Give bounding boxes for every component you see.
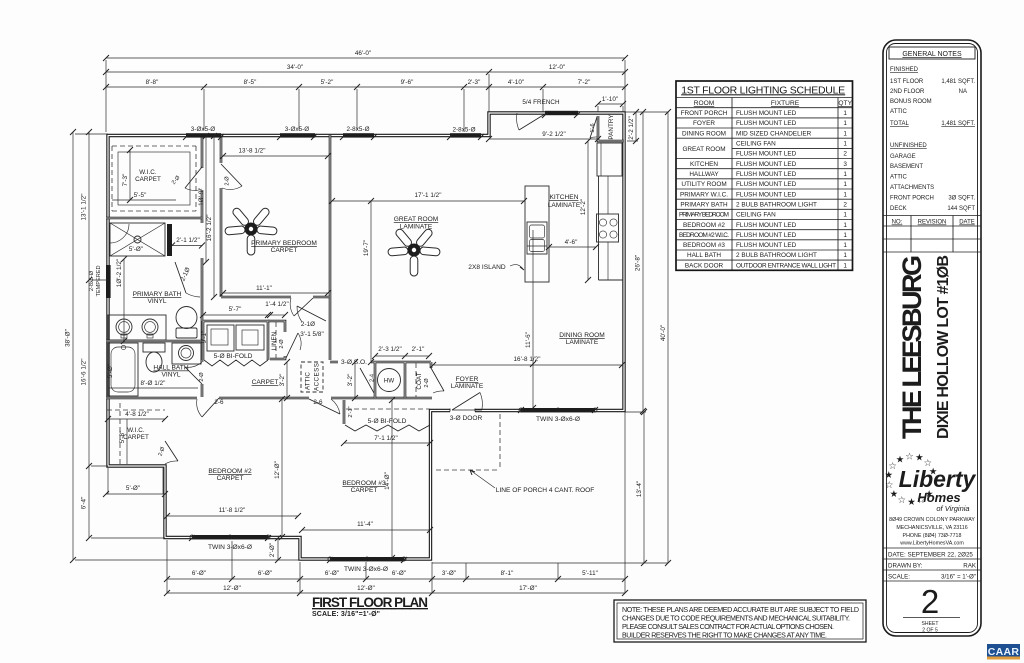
dimension 12'-2" kitchen vertical: [580, 138, 591, 283]
svg-text:17'-1 1/2": 17'-1 1/2": [414, 192, 441, 199]
sheet number 2: [903, 583, 960, 634]
svg-text:144 SQFT: 144 SQFT: [947, 206, 975, 212]
svg-text:FLUSH MOUNT LED: FLUSH MOUNT LED: [736, 242, 797, 249]
svg-text:8'-8": 8'-8": [146, 79, 159, 86]
svg-text:BEDROOM #2: BEDROOM #2: [208, 468, 252, 475]
dimension 11'-4" bedroom3: [299, 521, 433, 533]
dimension 7'-1 1/2" bedroom3 closet: [341, 435, 433, 446]
svg-text:GENERAL NOTES: GENERAL NOTES: [902, 51, 962, 58]
svg-text:HALLWAY: HALLWAY: [689, 171, 719, 178]
svg-text:2ND FLOOR: 2ND FLOOR: [890, 89, 925, 95]
window end tick marks top wall: [183, 112, 580, 140]
svg-text:5'-2": 5'-2": [321, 79, 334, 86]
ceiling fan great room: [388, 228, 440, 276]
label linen: [271, 331, 285, 350]
WIC1 shelf solid: [118, 152, 190, 205]
svg-text:2 BULB BATHROOM LIGHT: 2 BULB BATHROOM LIGHT: [736, 252, 817, 259]
svg-text:9'-2 1/2": 9'-2 1/2": [542, 131, 566, 138]
svg-text:of Virginia: of Virginia: [936, 504, 969, 513]
tub hall bath: [108, 343, 138, 396]
dimension 5'-5" wic1: [112, 192, 176, 200]
label coat: [416, 372, 430, 389]
svg-text:CARPET: CARPET: [252, 379, 279, 386]
svg-text:ATTIC: ATTIC: [890, 175, 908, 181]
interior wall primary bedroom west: [220, 135, 223, 297]
door WIC1 leaf: [185, 167, 202, 190]
svg-text:VINYL: VINYL: [161, 372, 180, 379]
svg-text:1: 1: [843, 262, 847, 269]
svg-text:FLUSH MOUNT LED: FLUSH MOUNT LED: [736, 191, 797, 198]
exterior wall outline: [108, 113, 624, 559]
svg-text:MID SIZED CHANDELIER: MID SIZED CHANDELIER: [736, 130, 812, 137]
svg-text:2-1Ø: 2-1Ø: [301, 321, 315, 328]
svg-text:12'-Ø": 12'-Ø": [357, 585, 375, 592]
svg-text:8'-5": 8'-5": [244, 79, 257, 86]
svg-text:CARPET: CARPET: [351, 487, 378, 494]
svg-text:Homes: Homes: [917, 490, 960, 505]
interior wall primary bedroom east: [329, 135, 332, 360]
svg-text:1: 1: [843, 120, 847, 127]
svg-text:6'-Ø": 6'-Ø": [258, 570, 272, 577]
svg-text:12'-2": 12'-2": [580, 199, 587, 215]
svg-text:3-Øx5-Ø: 3-Øx5-Ø: [191, 126, 216, 133]
svg-text:5'-11": 5'-11": [582, 570, 598, 577]
door WIC2 leaf: [165, 441, 178, 464]
right extension lines: [432, 112, 668, 563]
svg-text:38'-Ø": 38'-Ø": [65, 329, 72, 347]
svg-text:2-4: 2-4: [370, 374, 376, 382]
svg-text:2-Ø: 2-Ø: [158, 446, 167, 457]
svg-text:5'-5": 5'-5": [134, 192, 147, 199]
svg-text:PRIMARY BEDROOM: PRIMARY BEDROOM: [251, 240, 317, 247]
coat shelf dashed: [415, 363, 417, 397]
svg-text:2-Ø: 2-Ø: [225, 176, 231, 186]
svg-text:46'-0": 46'-0": [355, 50, 371, 57]
dimension 2'-3 1/2" HW: [372, 346, 408, 359]
svg-text:FINISHED: FINISHED: [890, 67, 919, 73]
svg-text:40'-0": 40'-0": [660, 325, 667, 341]
dimension 13'-4" right lower: [636, 409, 647, 566]
svg-text:ATTIC: ATTIC: [305, 372, 312, 390]
dimension 17'-1 1/2" great room: [329, 192, 527, 204]
svg-text:FLUSH MOUNT LED: FLUSH MOUNT LED: [736, 151, 797, 158]
svg-text:2 OF 5: 2 OF 5: [922, 628, 938, 634]
svg-text:7'-3": 7'-3": [122, 174, 129, 187]
svg-text:7'-1 1/2": 7'-1 1/2": [374, 435, 398, 442]
svg-text:CAAR: CAAR: [988, 646, 1020, 658]
svg-text:3-Øx5-Ø: 3-Øx5-Ø: [285, 126, 310, 133]
svg-text:3'-Ø": 3'-Ø": [442, 570, 456, 577]
dimension 4'-8 1/2" wic2: [105, 411, 168, 422]
svg-text:2-1Ø: 2-1Ø: [179, 266, 191, 282]
svg-text:2: 2: [843, 201, 847, 208]
svg-text:2'-1": 2'-1": [412, 346, 425, 353]
svg-text:1: 1: [843, 232, 847, 239]
svg-text:12'-Ø": 12'-Ø": [274, 461, 281, 479]
dimension 7'-3" wic1 vertical: [122, 147, 133, 203]
svg-text:3'-2": 3'-2": [279, 374, 286, 387]
svg-text:2-Ø: 2-Ø: [199, 372, 205, 382]
dimension 46'-0" top: [103, 50, 628, 61]
svg-text:8Ø49 CROWN COLONY PARKWAY: 8Ø49 CROWN COLONY PARKWAY: [889, 517, 975, 523]
WIC1 shelving dashed: [112, 146, 196, 211]
svg-text:4'-6": 4'-6": [565, 239, 578, 246]
label line of porch with leader: [470, 470, 594, 494]
svg-text:2-8x5-Ø: 2-8x5-Ø: [89, 270, 95, 291]
liberty homes logo stars: [885, 451, 938, 508]
dimension 5'-7" utility: [200, 306, 271, 318]
svg-text:11'-6": 11'-6": [525, 332, 532, 348]
svg-text:2-Ø: 2-Ø: [279, 339, 285, 349]
svg-text:UTILITY ROOM: UTILITY ROOM: [681, 181, 726, 188]
top extension lines: [106, 60, 625, 132]
svg-text:1ST FLOOR LIGHTING SCHEDULE: 1ST FLOOR LIGHTING SCHEDULE: [681, 84, 845, 96]
svg-text:4'-10": 4'-10": [508, 79, 524, 86]
bedroom3 closet shelf dashed: [346, 408, 430, 410]
svg-text:5'-Ø": 5'-Ø": [107, 364, 114, 378]
title block outer border: [883, 40, 981, 636]
svg-text:CEILING FAN: CEILING FAN: [736, 141, 776, 148]
svg-text:SCALE:: SCALE:: [888, 574, 910, 581]
kitchen stove: [597, 214, 619, 242]
svg-text:CARPET: CARPET: [217, 475, 244, 482]
svg-text:2 BULB BATHROOM LIGHT: 2 BULB BATHROOM LIGHT: [736, 201, 817, 208]
dimension row 8'-8"/8'-5"/5'-2"/9'-6"/2'-3"/4'-10"/7'-2": [103, 79, 628, 90]
svg-text:11'-4": 11'-4": [357, 521, 373, 528]
svg-text:GREAT ROOM: GREAT ROOM: [682, 146, 725, 153]
door primary suite entry leaf 2-10: [297, 306, 326, 322]
svg-text:1: 1: [843, 191, 847, 198]
svg-text:6'-Ø": 6'-Ø": [325, 570, 339, 577]
svg-text:ATTIC: ATTIC: [890, 109, 908, 115]
svg-text:12'-0": 12'-0": [549, 64, 565, 71]
dimension 11'-8 1/2" bedroom2: [164, 507, 301, 519]
HW water heater: [378, 369, 401, 392]
svg-text:LAMINATE: LAMINATE: [548, 202, 581, 209]
svg-text:PLEASE CONSULT SALES CONTRACT: PLEASE CONSULT SALES CONTRACT FOR ACTUAL…: [622, 623, 834, 631]
interior wall hall south: [106, 397, 432, 400]
svg-text:FLUSH MOUNT LED: FLUSH MOUNT LED: [736, 120, 797, 127]
svg-text:BUILDER RESERVES THE RIGHT TO: BUILDER RESERVES THE RIGHT TO MAKE CHANG…: [622, 632, 827, 640]
dimension 1'-4 1/2" linen: [265, 301, 289, 318]
svg-text:1'-10": 1'-10": [602, 96, 618, 103]
dimension 16'-2 1/2" vertical: [206, 133, 217, 300]
svg-text:2-6: 2-6: [313, 399, 323, 406]
svg-text:FLUSH MOUNT LED: FLUSH MOUNT LED: [736, 232, 797, 239]
svg-text:8'-Ø 1/2": 8'-Ø 1/2": [141, 380, 166, 387]
svg-text:www.LibertyHomesVA.com: www.LibertyHomesVA.com: [900, 541, 964, 547]
utility closet walls: [203, 321, 268, 360]
dimension 12'-0" bedroom2 vertical: [274, 396, 285, 540]
window twin bedroom3: [328, 557, 406, 561]
svg-text:DATE: SEPTEMBER 22, 2Ø25: DATE: SEPTEMBER 22, 2Ø25: [888, 552, 973, 559]
svg-text:SHEET: SHEET: [922, 621, 939, 627]
svg-text:W.I.C.: W.I.C.: [139, 169, 157, 176]
general notes finished section: [890, 67, 975, 127]
svg-text:DINING ROOM: DINING ROOM: [559, 332, 604, 339]
svg-text:5'-7": 5'-7": [229, 306, 242, 313]
svg-text:REVISION: REVISION: [918, 220, 947, 226]
svg-text:GARAGE: GARAGE: [890, 154, 916, 160]
dimension 2'-2 1/2" right top: [627, 109, 639, 144]
svg-text:ATTACHMENTS: ATTACHMENTS: [890, 185, 934, 191]
svg-text:5'-Ø": 5'-Ø": [126, 485, 140, 492]
svg-text:1: 1: [843, 110, 847, 117]
svg-text:17'-Ø": 17'-Ø": [519, 585, 537, 592]
room label primary bath: [133, 291, 182, 305]
toilet primary bath: [176, 307, 197, 339]
dimension 3'-2" hall right: [347, 359, 358, 401]
svg-text:1: 1: [843, 171, 847, 178]
svg-text:1Ø'-9": 1Ø'-9": [198, 188, 205, 206]
svg-text:1: 1: [843, 252, 847, 259]
svg-text:LINE OF PORCH 4 CANT. ROOF: LINE OF PORCH 4 CANT. ROOF: [496, 487, 595, 494]
dimension 11'-1" primary bedroom: [220, 285, 331, 296]
dimension 40'-0" right: [660, 109, 671, 566]
dimension 12'-0" top: [489, 64, 628, 75]
dimension 10'-9" vertical: [198, 133, 209, 265]
svg-text:BONUS ROOM: BONUS ROOM: [890, 99, 932, 105]
dimension 11'-6" dining vertical: [525, 230, 536, 411]
svg-text:9'-1": 9'-1": [201, 331, 208, 344]
interior wall primary bedroom south: [221, 296, 330, 299]
svg-text:2'-1": 2'-1": [348, 406, 354, 417]
linen closet walls: [268, 321, 285, 359]
svg-text:13'-8 1/2": 13'-8 1/2": [238, 148, 265, 155]
svg-text:2'-2 1/2": 2'-2 1/2": [628, 116, 635, 140]
general notes header: [889, 47, 975, 59]
svg-text:PRIMARY W.I.C.: PRIMARY W.I.C.: [680, 191, 728, 198]
svg-text:2-Ø: 2-Ø: [171, 174, 182, 185]
svg-text:NA: NA: [959, 89, 967, 95]
svg-text:1: 1: [843, 242, 847, 249]
svg-text:2-6: 2-6: [214, 399, 224, 406]
svg-text:DIXIE HOLLOW LOT #1ØB: DIXIE HOLLOW LOT #1ØB: [935, 255, 952, 439]
svg-text:CEILING FAN: CEILING FAN: [736, 212, 776, 219]
room label bedroom3: [342, 480, 386, 494]
svg-text:LAMINATE: LAMINATE: [451, 383, 484, 390]
svg-text:3-Ø DOOR: 3-Ø DOOR: [450, 415, 483, 422]
svg-text:BACK DOOR: BACK DOOR: [685, 262, 724, 269]
door hall bath leaf: [185, 362, 202, 384]
svg-text:DRAWN BY:: DRAWN BY:: [888, 563, 923, 570]
svg-text:5-Ø BI-FOLD: 5-Ø BI-FOLD: [368, 418, 407, 425]
svg-text:★: ★: [915, 453, 924, 464]
door linen leaf: [286, 333, 301, 358]
svg-text:19'-7": 19'-7": [363, 240, 370, 256]
svg-text:1,481 SQFT.: 1,481 SQFT.: [941, 79, 975, 85]
window 2-8x5-0 (4): [450, 133, 481, 137]
svg-text:FOYER: FOYER: [693, 120, 715, 127]
room label bedroom2: [208, 468, 252, 482]
svg-text:HW: HW: [384, 378, 395, 385]
svg-text:☆: ☆: [898, 495, 907, 506]
svg-text:FIRST FLOOR PLAN: FIRST FLOOR PLAN: [312, 595, 428, 610]
svg-text:PHONE (8Ø4) 73Ø-7718: PHONE (8Ø4) 73Ø-7718: [903, 533, 962, 539]
front door opening: [450, 407, 475, 413]
svg-text:LAMINATE: LAMINATE: [400, 224, 433, 231]
room label dining room: [559, 332, 604, 346]
svg-text:2: 2: [921, 583, 939, 620]
dimension 26'-8" right: [635, 109, 647, 414]
door bedroom2 leaf: [197, 398, 219, 417]
dimension 38'-0" left: [65, 129, 77, 563]
dimension 10'-2 1/2" left interior: [116, 256, 127, 344]
dimension 14'-0" bedroom3 vertical: [384, 397, 395, 561]
door front entry leaf and arc: [452, 393, 482, 411]
room label primary bedroom: [251, 240, 317, 254]
svg-text:FLUSH MOUNT LED: FLUSH MOUNT LED: [736, 161, 797, 168]
window end tick marks bottom walls: [189, 407, 598, 563]
shower primary bath: [110, 223, 165, 256]
svg-text:THE LEESBURG: THE LEESBURG: [897, 255, 927, 439]
svg-text:FOYER: FOYER: [456, 376, 479, 383]
dimension 19'-7" great room: [363, 198, 374, 365]
window 2-8x5-0 (3): [343, 133, 374, 137]
vanity hall bath sink: [172, 343, 201, 364]
kitchen island 2x8: [525, 186, 549, 282]
ceiling fan primary bedroom: [225, 207, 277, 255]
svg-text:PRIMARY BEDROOM: PRIMARY BEDROOM: [679, 212, 729, 219]
svg-text:TWIN 3-Øx6-Ø: TWIN 3-Øx6-Ø: [536, 416, 580, 423]
bottom dimension row 12'-0" x2, 17'-0": [164, 585, 628, 596]
window tempered left wall: [106, 265, 111, 298]
toilet hall bath: [143, 343, 165, 372]
svg-text:2-8x5-Ø: 2-8x5-Ø: [452, 127, 475, 134]
svg-text:KITCHEN: KITCHEN: [690, 161, 718, 168]
svg-text:6'-Ø": 6'-Ø": [392, 570, 406, 577]
svg-text:☆: ☆: [905, 451, 914, 462]
svg-text:W.I.C.: W.I.C.: [127, 427, 145, 434]
svg-text:CARPET: CARPET: [123, 434, 149, 441]
interior wall WIC/bath east: [201, 135, 204, 397]
door french swing: [517, 113, 545, 130]
svg-text:4'-8 1/2": 4'-8 1/2": [125, 411, 149, 418]
svg-text:CARPET: CARPET: [271, 247, 298, 254]
svg-text:TEMPERED: TEMPERED: [96, 265, 102, 296]
window 3-0x5-0 (1): [186, 133, 221, 137]
svg-text:13'-4": 13'-4": [636, 481, 643, 497]
svg-text:OUTDOOR ENTRANCE WALL LIGHT: OUTDOOR ENTRANCE WALL LIGHT: [736, 262, 836, 269]
svg-text:COAT: COAT: [416, 372, 423, 389]
liberty address block: [889, 517, 975, 547]
porch cantilever dashed lines: [436, 414, 500, 470]
dimension 16'-8 1/2" dining: [430, 356, 625, 368]
svg-text:1: 1: [843, 181, 847, 188]
shower glass panel: [167, 224, 172, 256]
vanity primary bath double sink: [108, 315, 166, 340]
svg-text:34'-0": 34'-0": [287, 64, 303, 71]
bottom extension lines: [167, 412, 625, 593]
dimension 2'-1" coat: [405, 346, 432, 359]
svg-text:1,481 SQFT.: 1,481 SQFT.: [941, 121, 975, 127]
svg-text:VINYL: VINYL: [147, 298, 166, 305]
left extension lines: [75, 134, 300, 560]
svg-text:ROOM: ROOM: [694, 100, 715, 107]
title first floor plan: [312, 595, 428, 618]
svg-text:2X8 ISLAND: 2X8 ISLAND: [468, 264, 506, 271]
svg-text:LAMINATE: LAMINATE: [566, 339, 599, 346]
door bedroom closet leaf: [221, 164, 242, 190]
WIC2 shelving dashed: [107, 403, 165, 464]
svg-text:FRONT PORCH: FRONT PORCH: [890, 196, 934, 202]
room label foyer: [451, 376, 484, 390]
svg-text:1: 1: [843, 141, 847, 148]
pantry walls: [598, 116, 624, 141]
bottom dimension row 6'-0" x4, 3'-0", 8'-1", 5'-11": [164, 570, 628, 582]
svg-text:3-Ø S.O.: 3-Ø S.O.: [341, 359, 367, 366]
dimension 5'-8" wic2 vertical: [119, 419, 127, 464]
note box: [614, 600, 866, 642]
svg-text:BEDROOM #2 W.I.C.: BEDROOM #2 W.I.C.: [679, 232, 729, 239]
svg-text:Liberty: Liberty: [899, 466, 977, 492]
svg-text:9'-6": 9'-6": [401, 79, 414, 86]
svg-text:2-Ø: 2-Ø: [424, 378, 430, 388]
svg-text:1ST FLOOR: 1ST FLOOR: [890, 79, 924, 85]
window twin dining: [519, 408, 597, 412]
svg-text:26'-8": 26'-8": [635, 255, 642, 271]
svg-text:3/16" = 1'-Ø": 3/16" = 1'-Ø": [941, 574, 976, 581]
date drawn scale rows: [883, 548, 981, 581]
attic access dashed box: [301, 362, 323, 392]
svg-text:BASEMENT: BASEMENT: [890, 164, 923, 170]
svg-text:1: 1: [843, 130, 847, 137]
svg-text:6'-Ø": 6'-Ø": [192, 570, 206, 577]
svg-text:11'-8 1/2": 11'-8 1/2": [219, 507, 246, 514]
svg-text:1: 1: [843, 222, 847, 229]
svg-text:2'-1 1/2": 2'-1 1/2": [176, 237, 200, 244]
svg-text:HALL BATH: HALL BATH: [153, 365, 188, 372]
revision table: [883, 216, 981, 253]
door primary bath leaf 2-10: [175, 262, 200, 297]
CAAR logo: [987, 644, 1020, 660]
svg-text:3'-1 5/8": 3'-1 5/8": [300, 331, 324, 338]
room label WIC2: [123, 427, 149, 441]
svg-text:1Ø'-2 1/2": 1Ø'-2 1/2": [116, 259, 123, 287]
svg-text:2: 2: [843, 151, 847, 158]
svg-text:3Ø SQFT.: 3Ø SQFT.: [948, 196, 975, 202]
dimension 8'-0 1/2" hall bath: [108, 380, 198, 388]
svg-text:SCALE: 3/16"=1'-Ø": SCALE: 3/16"=1'-Ø": [312, 611, 380, 618]
kitchen counter line: [599, 176, 624, 280]
dimension 4'-6" kitchen: [546, 239, 599, 250]
svg-text:8'-1": 8'-1": [501, 570, 514, 577]
svg-text:TWIN 3-Øx6-Ø: TWIN 3-Øx6-Ø: [344, 566, 388, 573]
svg-text:5'-Ø": 5'-Ø": [129, 246, 143, 253]
svg-text:5/4 FRENCH: 5/4 FRENCH: [522, 99, 560, 106]
svg-text:1'-6: 1'-6: [590, 123, 596, 132]
svg-text:2'-3 1/2": 2'-3 1/2": [378, 346, 402, 353]
svg-text:CARPET: CARPET: [135, 176, 161, 183]
svg-text:16'-2 1/2": 16'-2 1/2": [206, 214, 213, 241]
general notes unfinished section: [890, 143, 975, 212]
door shower entry arc: [110, 224, 129, 243]
svg-text:6'-4": 6'-4": [81, 497, 88, 510]
bifold bedroom3 closet: [345, 425, 430, 431]
svg-text:FIXTURE: FIXTURE: [771, 100, 800, 107]
svg-text:UNFINISHED: UNFINISHED: [890, 143, 927, 149]
svg-text:5-Ø BI-FOLD: 5-Ø BI-FOLD: [214, 353, 253, 360]
svg-text:BEDROOM #2: BEDROOM #2: [683, 222, 725, 229]
svg-text:2'-3": 2'-3": [468, 79, 481, 86]
svg-text:QTY: QTY: [838, 100, 852, 107]
svg-text:DINING ROOM: DINING ROOM: [682, 130, 726, 137]
svg-text:PANTRY: PANTRY: [608, 114, 615, 140]
door coat closet leaf: [431, 368, 444, 393]
label 2x8 island with leader: [468, 264, 524, 271]
washer dryer utility: [207, 325, 264, 351]
door pantry leaf: [590, 117, 597, 138]
